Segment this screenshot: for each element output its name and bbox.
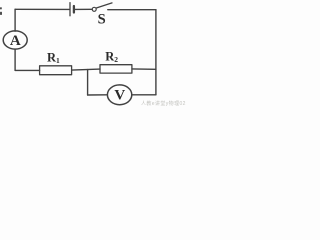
switch S pivot circle <box>92 7 96 11</box>
svg-text:R2: R2 <box>105 50 118 64</box>
edge artifact left <box>0 7 2 15</box>
wire voltmeter to bottom right corner <box>132 94 156 96</box>
svg-text:A: A <box>10 33 21 49</box>
resistor R2 box <box>100 65 132 73</box>
wire battery to switch <box>75 8 92 10</box>
battery short plate <box>73 6 75 13</box>
wire R2 to right vertical <box>132 68 156 70</box>
svg-text:S: S <box>98 12 106 28</box>
wire R1 to R2 <box>72 69 100 70</box>
wire bottom left horizontal <box>15 69 39 71</box>
svg-text:V: V <box>114 88 125 104</box>
wire voltmeter branch vertical <box>87 70 89 95</box>
voltmeter V body <box>107 85 131 105</box>
wire left vertical lower <box>14 49 16 70</box>
wire left vertical upper <box>14 9 16 31</box>
wire voltmeter branch horizontal <box>88 94 108 96</box>
wire top left horizontal <box>15 8 69 10</box>
ammeter A body <box>3 31 27 49</box>
wire right vertical <box>155 10 157 95</box>
resistor R1 box <box>40 66 72 75</box>
svg-text:人教e讲堂y物理02: 人教e讲堂y物理02 <box>141 100 186 107</box>
wire switch to top right corner <box>108 9 156 11</box>
switch lever <box>96 3 112 8</box>
svg-text:R1: R1 <box>47 50 60 64</box>
battery long plate <box>69 3 71 16</box>
